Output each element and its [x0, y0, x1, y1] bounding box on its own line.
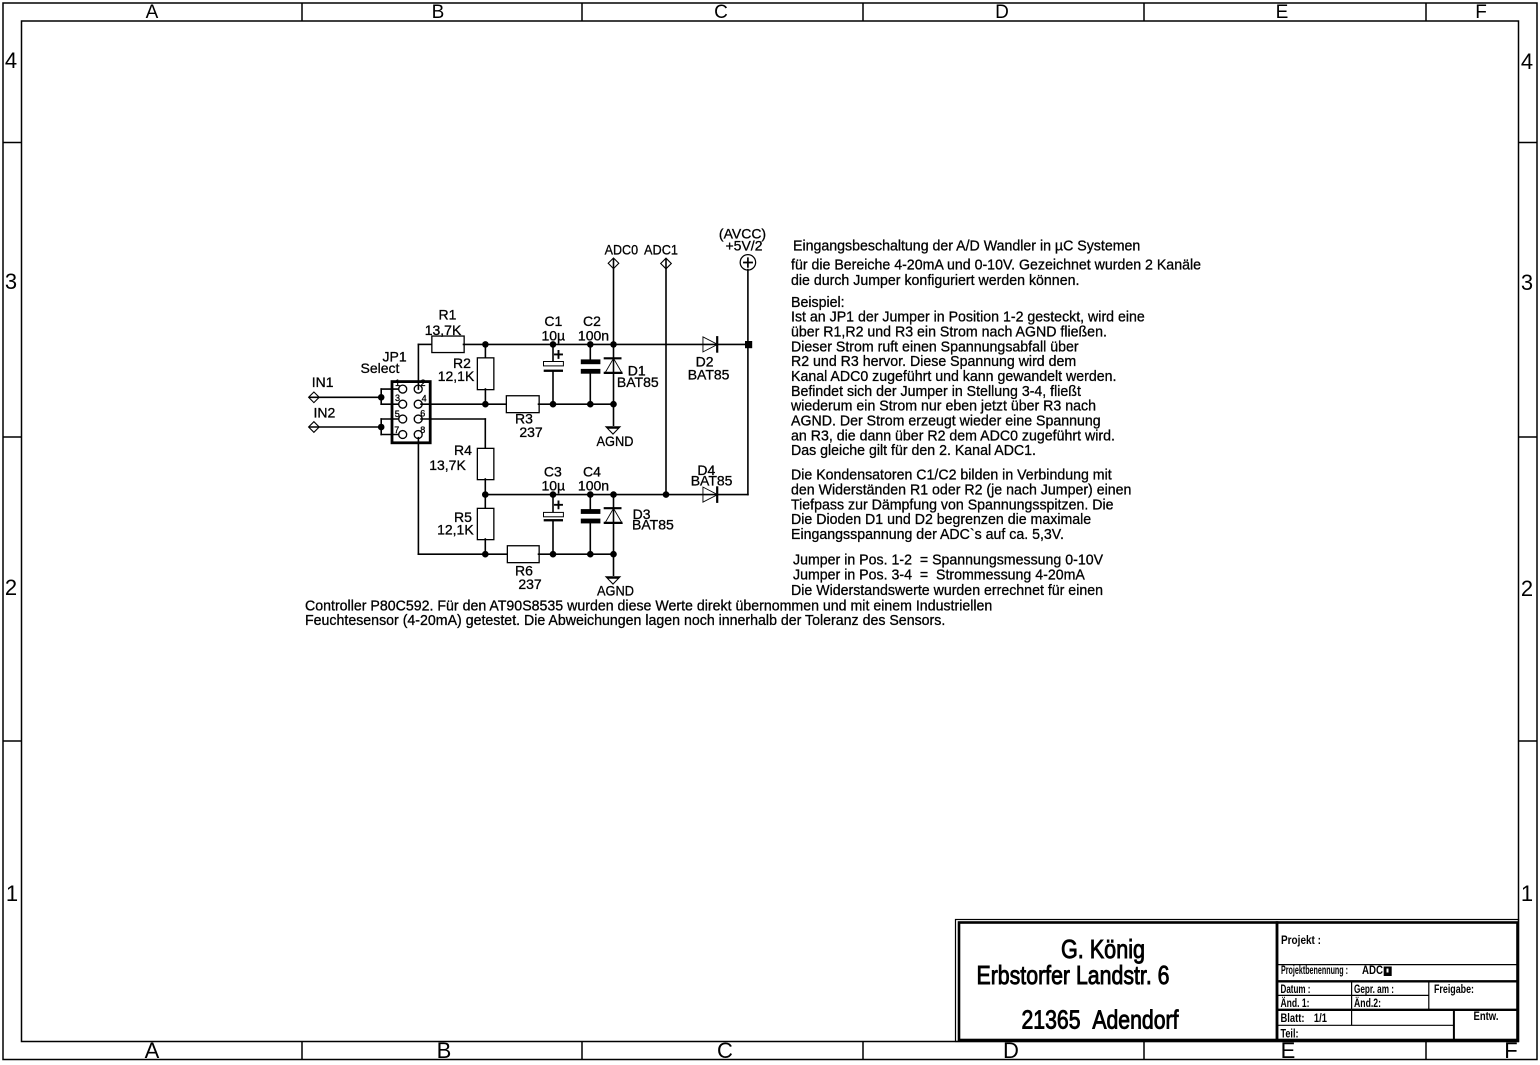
junction node A2 [482, 491, 489, 498]
svg-text:A: A [145, 1038, 160, 1063]
junction C3 top [550, 491, 557, 498]
junction D3 bottom [610, 551, 617, 558]
wire C4 top lead [589, 495, 591, 510]
pin IN2 [309, 422, 318, 431]
diode D4 triangle [703, 488, 716, 502]
svg-text:Jumper in Pos. 3-4 = Stromme: Jumper in Pos. 3-4 = Strommessung 4-20mA [793, 566, 1085, 583]
diode D2 cathode bar [716, 337, 718, 351]
svg-text:3: 3 [5, 269, 17, 294]
svg-text:A: A [146, 2, 159, 23]
svg-text:Datum :: Datum : [1281, 982, 1311, 996]
svg-text:12,1K: 12,1K [437, 522, 474, 538]
svg-text:Freigabe:: Freigabe: [1434, 982, 1474, 996]
svg-text:4: 4 [5, 48, 17, 73]
wire top rail R1 to AVCC [464, 343, 748, 345]
svg-text:Eingangsbeschaltung der A/D Wa: Eingangsbeschaltung der A/D Wandler in µ… [793, 237, 1140, 254]
svg-text:3: 3 [1521, 270, 1533, 295]
svg-text:E: E [1276, 2, 1289, 23]
wire C2 bottom lead [589, 374, 591, 405]
wire pin2 up to top rail [417, 344, 419, 389]
wire stub to pin 3 [381, 403, 403, 405]
junction C2 bottom [587, 401, 594, 408]
TITLEBLOCK [956, 920, 1519, 1042]
JP1 pad 7 [399, 431, 406, 438]
svg-text:B: B [437, 1038, 452, 1063]
svg-text:Erbstorfer Landstr. 6: Erbstorfer Landstr. 6 [977, 960, 1170, 990]
capacitor C3 bottom plate [544, 519, 563, 521]
junction D1 bottom [610, 401, 617, 408]
capacitor C2 bottom plate [581, 369, 601, 374]
svg-text:Entw.: Entw. [1474, 1009, 1499, 1023]
JP1 pad 1 [399, 386, 406, 393]
svg-text:Projektbenennung :: Projektbenennung : [1281, 963, 1348, 977]
wire D1 through [613, 344, 615, 404]
svg-text:Das gleiche gilt für den 2. Ka: Das gleiche gilt für den 2. Kanal ADC1. [791, 442, 1036, 459]
junction D3 top [610, 491, 617, 498]
junction C4 bottom [587, 551, 594, 558]
svg-text:ADC: ADC [1362, 963, 1383, 977]
svg-text:D: D [995, 2, 1009, 23]
svg-text:IN2: IN2 [314, 405, 336, 421]
junction C4 top [587, 491, 594, 498]
resistor R5 [478, 509, 493, 539]
svg-text:AGND: AGND [597, 582, 634, 598]
svg-text:Gepr. am :: Gepr. am : [1354, 982, 1394, 996]
wire pin4 rail to R3 [421, 403, 507, 405]
svg-text:1/1: 1/1 [1314, 1011, 1327, 1025]
wire R5 bottom lead [484, 539, 486, 554]
wire R4 top lead [484, 419, 486, 449]
svg-text:ADC0: ADC0 [605, 242, 639, 258]
pin IN1 [309, 393, 318, 402]
junction AVCC top rail (square) [745, 341, 752, 348]
BODYTEXT [305, 237, 1201, 629]
junction IN2 fork [378, 424, 385, 431]
wire R6 to AGND2 rail [539, 553, 614, 555]
svg-text:AGND: AGND [597, 433, 634, 449]
resistor R2 [478, 359, 493, 390]
junction node A [482, 341, 489, 348]
wire lower bottom rail left [418, 553, 508, 555]
wire C3 bottom lead [552, 521, 554, 554]
diode D3 triangle [606, 509, 622, 523]
svg-text:Blatt:: Blatt: [1281, 1011, 1305, 1025]
svg-text:12,1K: 12,1K [438, 368, 475, 384]
svg-text:R4: R4 [454, 442, 472, 458]
svg-text:ADC1: ADC1 [644, 242, 678, 258]
diode D1 base bar [605, 372, 622, 374]
wire ADC0 to top rail [613, 260, 615, 345]
wire top rail left of R1 [418, 343, 432, 345]
svg-text:die durch Jumper konfiguriert: die durch Jumper konfiguriert werden kön… [791, 272, 1079, 289]
svg-text:C: C [717, 1038, 733, 1063]
diode D1 cathode bar [605, 357, 621, 359]
capacitor C4 top plate [581, 509, 601, 514]
svg-text:4: 4 [422, 393, 427, 403]
junction IN1 fork [378, 394, 385, 401]
wire D3 through [613, 495, 615, 555]
wire R2 bottom lead [484, 389, 486, 404]
wire IN1 to jumper fork [310, 396, 381, 398]
svg-text:2: 2 [5, 575, 17, 600]
svg-text:2: 2 [1521, 576, 1533, 601]
wire IN2 to jumper fork [310, 426, 381, 428]
capacitor C1 top plate [544, 362, 563, 365]
wire lower top rail [485, 494, 748, 496]
junction C1 bottom [550, 401, 557, 408]
junction C2 top [587, 341, 594, 348]
wire AGND2 drop [613, 554, 615, 575]
diode D3 cathode bar [605, 507, 621, 509]
wire stub to pin 7 [381, 434, 403, 436]
resistor R6 [508, 546, 539, 562]
svg-text:F: F [1475, 2, 1487, 23]
wire IN2 fork vertical [380, 419, 382, 435]
diode D4 cathode bar [716, 487, 718, 501]
wire AGND1 drop [613, 404, 615, 425]
ground AGND2 symbol [605, 576, 622, 585]
svg-text:1: 1 [6, 881, 18, 906]
JP1 pad 2 [415, 386, 422, 393]
wire R4 bottom lead [484, 479, 486, 509]
wire stub to pin 5 [381, 418, 403, 420]
supply +5V/2 AVCC symbol [741, 255, 755, 269]
capacitor C2 top plate [581, 359, 601, 364]
svg-text:Feuchtesensor (4-20mA) geteste: Feuchtesensor (4-20mA) getestet. Die Abw… [305, 612, 945, 629]
capacitor C4 bottom plate [581, 519, 601, 524]
JP1 pad 5 [399, 416, 406, 423]
capacitor C3 top plate [544, 513, 563, 516]
capacitor C1 bottom plate [544, 370, 563, 372]
wire C3 top lead [552, 495, 554, 513]
JP1 pad 3 [399, 401, 406, 408]
junction ADC1 lower rail [663, 491, 670, 498]
capacitor C1 plus sign [555, 351, 562, 358]
wire ADC1 to lower rail [665, 260, 667, 495]
svg-text:BAT85: BAT85 [632, 516, 674, 532]
svg-text:Projekt :: Projekt : [1281, 933, 1321, 947]
svg-text:100n: 100n [578, 327, 609, 343]
svg-text:R1: R1 [439, 306, 457, 322]
svg-text:4: 4 [1521, 49, 1533, 74]
wire C4 bottom lead [589, 523, 591, 554]
junction node B [482, 401, 489, 408]
wire IN1 fork vertical [380, 389, 382, 404]
svg-text:Eingangsspannung der ADC`s auf: Eingangsspannung der ADC`s auf ca. 5,3V. [791, 526, 1064, 543]
wire AVCC vertical [747, 270, 749, 495]
resistor R1 [433, 337, 464, 352]
svg-text:Die Widerstandswerte wurden er: Die Widerstandswerte wurden errechnet fü… [791, 582, 1103, 599]
svg-text:IN1: IN1 [312, 374, 334, 390]
svg-text:Änd. 1:: Änd. 1: [1281, 995, 1310, 1010]
wire stub to pin 1 [381, 388, 403, 390]
JP1 pad 6 [415, 416, 422, 423]
junction node B2 [482, 551, 489, 558]
SCHEMATIC [309, 226, 766, 599]
svg-text:Teil:: Teil: [1281, 1027, 1299, 1041]
pin ADC0 [609, 259, 618, 268]
wire C1 bottom lead [552, 372, 554, 404]
svg-text:10µ: 10µ [541, 327, 565, 343]
svg-text:237: 237 [519, 424, 543, 440]
diode D2 triangle [703, 338, 716, 352]
resistor R4 [478, 449, 493, 479]
svg-text:B: B [432, 2, 445, 23]
svg-text:1: 1 [1521, 881, 1533, 906]
svg-text:Änd.2:: Änd.2: [1354, 995, 1381, 1010]
svg-text:237: 237 [518, 576, 542, 592]
wire R2 top lead [484, 344, 486, 358]
wire C1 top lead [552, 344, 554, 362]
svg-text:Select: Select [361, 360, 400, 376]
svg-text:13,7K: 13,7K [429, 457, 466, 473]
capacitor C3 plus sign [555, 501, 562, 508]
ground AGND1 symbol [605, 426, 622, 435]
svg-text:100n: 100n [578, 478, 609, 494]
svg-text:BAT85: BAT85 [691, 473, 733, 489]
wire pin8 down [417, 438, 419, 555]
diode D1 triangle [606, 359, 622, 373]
svg-text:13,7K: 13,7K [425, 322, 462, 338]
svg-text:BAT85: BAT85 [688, 366, 730, 382]
junction D1 top [610, 341, 617, 348]
svg-text:BAT85: BAT85 [617, 374, 659, 390]
junction C3 bottom [550, 551, 557, 558]
connector JP1 body [392, 382, 430, 443]
diode D3 base bar [605, 522, 622, 524]
svg-text:10µ: 10µ [541, 478, 565, 494]
JP1 pad 8 [415, 431, 422, 438]
junction C1 top [550, 341, 557, 348]
pin ADC1 [661, 259, 670, 268]
svg-text:C: C [714, 2, 728, 23]
resistor R3 [507, 396, 539, 412]
wire pin6 to R4 corner [421, 418, 485, 420]
wire C2 top lead [589, 344, 591, 359]
JP1 pad 4 [415, 401, 422, 408]
svg-text:+5V/2: +5V/2 [726, 238, 763, 254]
wire R3 to AGND rail [539, 403, 614, 405]
svg-text:21365 Adendorf: 21365 Adendorf [1022, 1005, 1180, 1035]
